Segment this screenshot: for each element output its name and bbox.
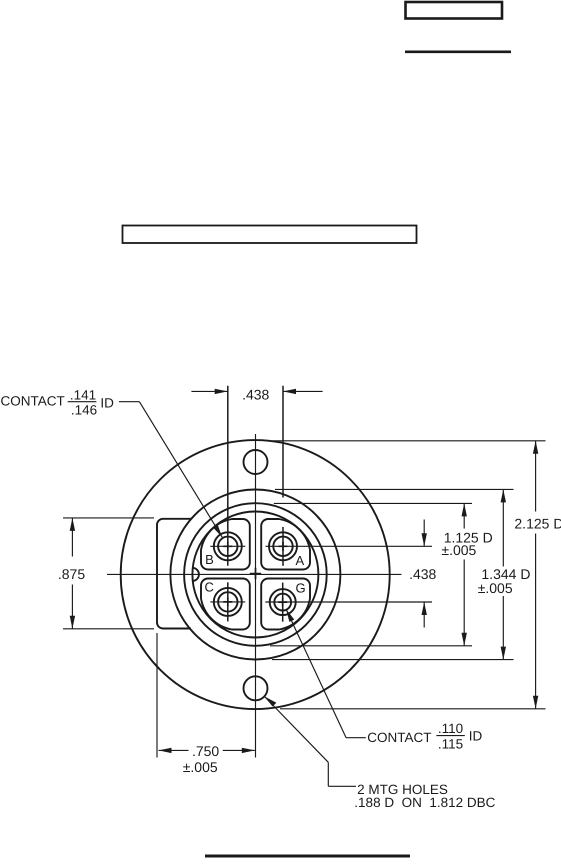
dimension 1.344 D (272, 489, 514, 659)
leader contact .110/.115 (286, 609, 465, 738)
svg-text:.438: .438 (409, 566, 436, 582)
contact A crosshair (266, 386, 433, 566)
cavity A (261, 519, 310, 570)
svg-text:±.005: ±.005 (183, 759, 218, 775)
svg-text:2.125 D: 2.125 D (514, 516, 561, 532)
contact G (270, 589, 296, 615)
top mounting hole (244, 450, 268, 474)
svg-text:.188 D ON 1.812 DBC: .188 D ON 1.812 DBC (354, 795, 495, 810)
svg-text:.750: .750 (192, 743, 219, 759)
svg-text:.146: .146 (71, 403, 97, 418)
cavity G (261, 579, 310, 630)
svg-text:ID: ID (100, 396, 114, 411)
dimension .438 vertical right (422, 520, 427, 628)
leader 2 MTG HOLES (265, 697, 357, 787)
svg-text:CONTACT: CONTACT (1, 394, 65, 409)
svg-text:B: B (205, 552, 214, 567)
contact B crosshair (210, 386, 245, 566)
dimension .438 horizontal top (191, 389, 322, 394)
svg-text:.115: .115 (438, 737, 463, 752)
dimension 2.125 D (273, 441, 546, 709)
svg-text:CONTACT: CONTACT (367, 730, 431, 745)
leader contact .141/.146 (68, 402, 223, 538)
dimension .875 (63, 518, 154, 629)
contact B (214, 532, 242, 560)
bottom mounting hole (244, 676, 268, 700)
insert inner circle (192, 512, 318, 638)
contact A (269, 532, 297, 560)
cavity C (201, 579, 250, 630)
header box (406, 2, 503, 19)
cavity B (201, 519, 250, 570)
contact G crosshair (265, 583, 432, 622)
contact C (214, 588, 242, 616)
flange circle (121, 440, 390, 709)
svg-text:.141: .141 (70, 388, 96, 403)
insert keyway notch (192, 568, 199, 581)
vertical centerline (255, 434, 257, 758)
svg-text:±.005: ±.005 (478, 580, 513, 596)
svg-text:G: G (295, 581, 305, 596)
svg-text:ID: ID (469, 729, 483, 744)
horizontal centerline (107, 573, 402, 575)
svg-text:C: C (205, 579, 214, 594)
insert outer circle (184, 503, 327, 646)
svg-text:.438: .438 (242, 387, 269, 403)
title box (123, 226, 417, 244)
contact C crosshair (210, 582, 245, 621)
dimension .750 (157, 633, 255, 758)
svg-text:±.005: ±.005 (441, 542, 476, 558)
svg-text:.110: .110 (438, 721, 463, 736)
center cross (250, 568, 261, 579)
svg-text:.875: .875 (58, 566, 85, 582)
shell circle (170, 490, 340, 660)
footer rule (205, 855, 410, 858)
keyway tab (157, 519, 191, 629)
header rule (405, 50, 511, 53)
dimension 1.125 D (270, 503, 472, 645)
svg-text:A: A (295, 553, 304, 568)
